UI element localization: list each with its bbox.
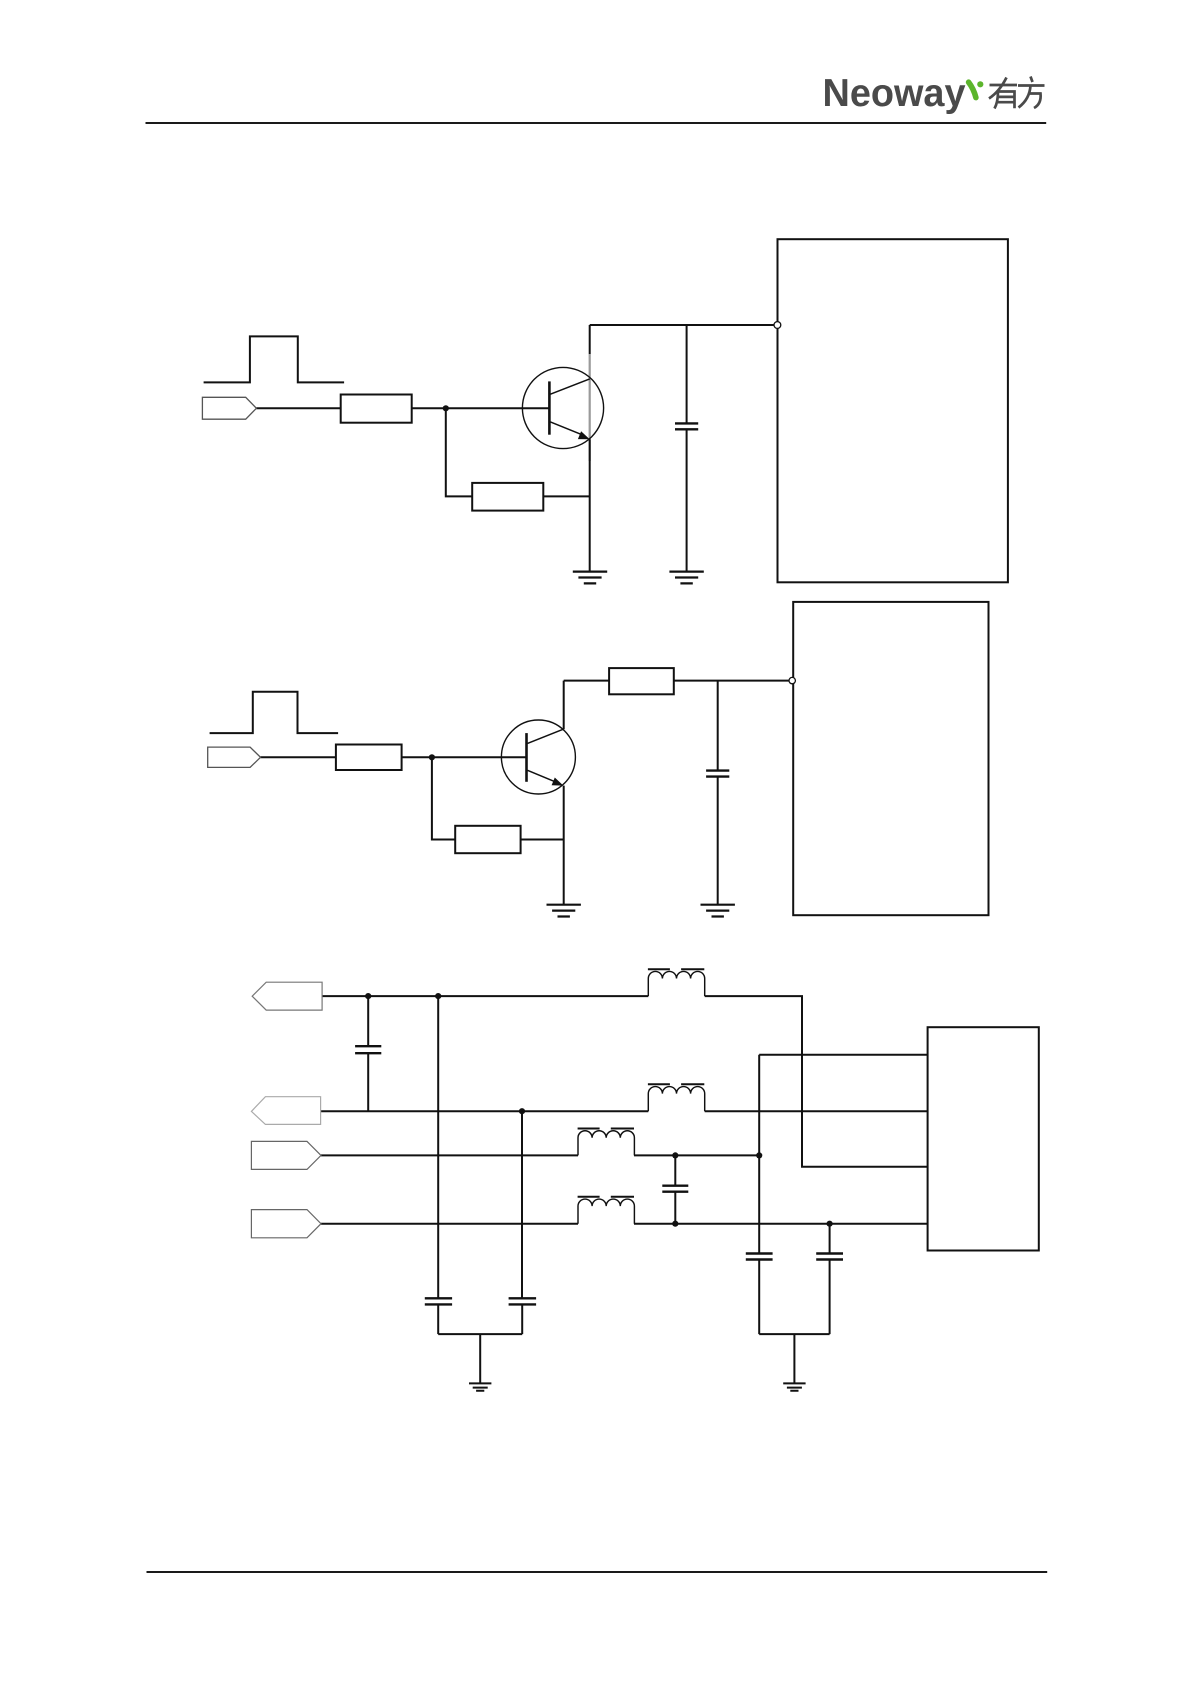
svg-text:Neoway: Neoway xyxy=(823,72,967,115)
